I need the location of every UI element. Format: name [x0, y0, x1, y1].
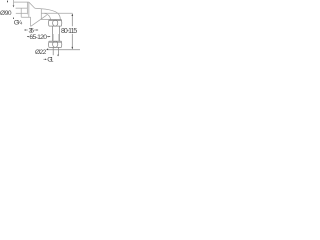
outlet pipe walls: [52, 47, 54, 55]
reference line top: [41, 12, 72, 14]
arrowhead 80-115 up: [72, 14, 74, 16]
arrowhead G1 right: [45, 59, 47, 60]
svg-text:80-115: 80-115: [61, 28, 77, 35]
svg-text:G1: G1: [47, 57, 54, 64]
outlet end mark: [57, 55, 59, 57]
inlet bottom wall: [16, 12, 28, 14]
svg-text:Ø90: Ø90: [0, 10, 12, 17]
chamfer edge: [29, 2, 35, 8]
leader line Ø90: [13, 0, 15, 5]
edge leader dot: [7, 1, 8, 2]
edge leader stub top-left: [7, 0, 9, 2]
union nut 1: [49, 20, 62, 22]
flange face line back: [28, 2, 30, 17]
dim 35 tails: [24, 29, 27, 31]
inlet top wall: [16, 7, 28, 9]
svg-text:Ø22: Ø22: [35, 49, 47, 56]
inner bend curve: [44, 13, 50, 19]
dimension line 80-115 upper: [71, 14, 73, 26]
dimension line 80-115 lower: [71, 34, 73, 49]
dim 65-120 tails: [27, 36, 29, 38]
arrowhead Ø90 down: [13, 5, 15, 7]
flange face line front: [26, 2, 28, 14]
svg-text:65-120: 65-120: [29, 34, 47, 41]
floor line left tick: [46, 48, 48, 50]
body bottom edge: [21, 16, 30, 18]
taper top edge: [35, 7, 42, 10]
outer bend curve: [41, 9, 60, 20]
union seam vertical: [40, 9, 42, 20]
arrowhead 80-115 down: [72, 47, 74, 49]
arrowhead 35 left: [24, 29, 26, 30]
arrowhead 35 right: [36, 29, 38, 30]
floor reference line: [47, 49, 81, 51]
arrowhead 65-120 left: [27, 36, 29, 37]
pipe upper segment walls: [51, 26, 53, 41]
G3/4 leader tick: [12, 18, 15, 20]
elbow bottom edge: [41, 19, 49, 21]
union nut 2: [49, 40, 62, 42]
telescope inner sleeve lines: [52, 34, 54, 41]
nut 1 top line: [49, 19, 62, 21]
body lower vertical: [30, 17, 32, 26]
arrowhead 65-120 right: [49, 36, 51, 37]
taper bottom diagonal: [31, 15, 47, 26]
G1 leader tail: [44, 58, 47, 60]
svg-text:G¾: G¾: [14, 20, 23, 27]
flange top edge: [14, 1, 29, 3]
body left edge: [20, 8, 22, 17]
